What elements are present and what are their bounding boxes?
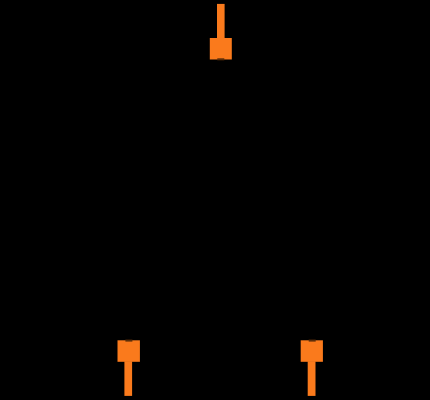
pin 2 (bottom left) inner stub xyxy=(125,340,132,342)
pin 1 (top) pad xyxy=(210,38,232,60)
pin 3 (bottom right) lead wire xyxy=(308,362,316,396)
pin 2 (bottom left) pad xyxy=(118,340,140,362)
pin 1 (top) lead wire xyxy=(217,4,225,38)
pin 3 (bottom right) inner stub xyxy=(309,340,316,342)
pin 2 (bottom left) lead wire xyxy=(124,362,132,396)
pin 1 (top) inner stub xyxy=(217,58,224,60)
pin 3 (bottom right) pad xyxy=(301,340,323,362)
